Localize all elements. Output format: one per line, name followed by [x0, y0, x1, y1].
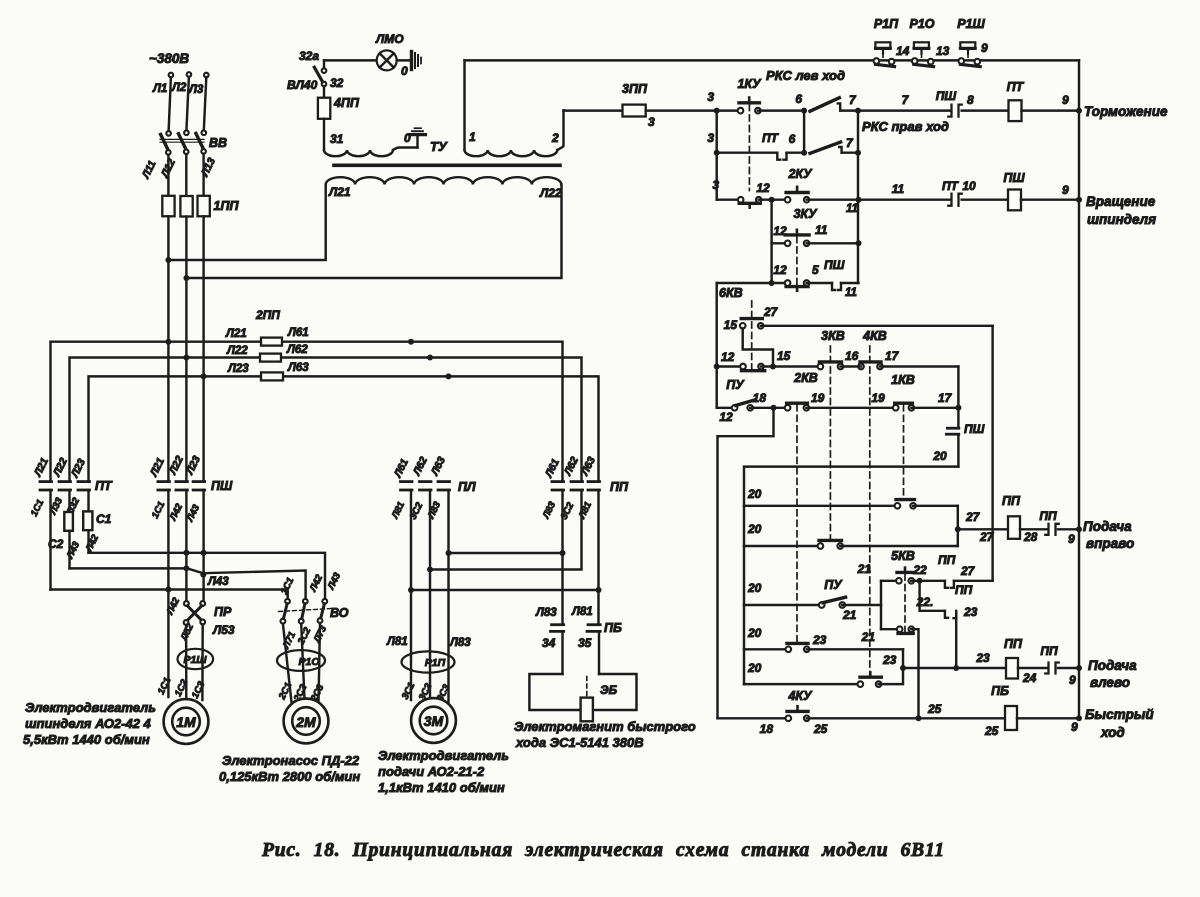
auxiliary self-hold contact ПШ (11)	[807, 282, 832, 284]
svg-text:22.: 22.	[916, 595, 934, 609]
svg-text:ЛМО: ЛМО	[375, 32, 404, 46]
motor 1М (spindle)	[164, 699, 209, 744]
svg-text:ВО: ВО	[330, 606, 349, 620]
svg-text:Быстрый: Быстрый	[1085, 707, 1154, 722]
wire 21 to 5КВ contacts	[842, 604, 881, 606]
corner into feed-left row	[902, 649, 904, 668]
svg-text:Р1Ш: Р1Ш	[183, 654, 207, 666]
auxiliary contact ПП (24) feed left	[1018, 667, 1047, 669]
node 3 on braking row	[714, 108, 720, 114]
svg-text:23: 23	[882, 653, 897, 667]
branch 3 to РКС прав ход	[715, 111, 717, 200]
svg-text:4КУ: 4КУ	[787, 689, 813, 703]
svg-text:23: 23	[963, 605, 978, 619]
svg-text:11: 11	[845, 287, 857, 299]
wire 27 to coil ПП (feed right)	[958, 528, 1008, 530]
wire to ВО pole 1	[51, 590, 288, 600]
svg-text:ПШ: ПШ	[211, 479, 233, 493]
contactor coil ПТ (braking)	[962, 109, 1009, 111]
svg-text:Рис. 18. Принципиальная электр: Рис. 18. Принципиальная электрическая сх…	[261, 840, 945, 861]
wire ПБ coil to bus end	[1017, 717, 1079, 719]
svg-text:0,125кВт 2800 об/мин: 0,125кВт 2800 об/мин	[219, 769, 360, 784]
svg-text:9: 9	[1069, 673, 1076, 687]
svg-text:3М: 3М	[424, 713, 444, 729]
svg-text:Р1П: Р1П	[874, 17, 899, 31]
svg-text:19: 19	[811, 391, 825, 405]
svg-text:Л43: Л43	[207, 576, 229, 588]
svg-text:25: 25	[813, 722, 828, 736]
electromagnet ЭБ coil	[586, 677, 588, 696]
svg-text:2КУ: 2КУ	[787, 167, 813, 181]
wire 3ПП to node 3	[646, 109, 741, 111]
svg-text:8: 8	[967, 93, 974, 107]
svg-text:12: 12	[773, 263, 787, 277]
svg-text:Л2: Л2	[171, 82, 187, 94]
wire ПТ coil to bus node 9	[1022, 109, 1080, 111]
svg-text:ПБ: ПБ	[604, 621, 622, 635]
svg-text:21: 21	[861, 630, 876, 644]
svg-text:ВВ: ВВ	[209, 136, 227, 150]
phase column Л22 below fuse	[185, 217, 187, 482]
svg-text:21: 21	[842, 608, 857, 622]
svg-text:16: 16	[845, 349, 859, 363]
svg-text:27: 27	[960, 564, 976, 578]
distribution wire Л22 / Л62	[70, 358, 582, 482]
svg-text:Л62: Л62	[286, 344, 308, 356]
svg-text:Л1: Л1	[152, 83, 167, 95]
svg-text:32а: 32а	[299, 49, 319, 63]
wires ВО to motor 2М	[283, 624, 292, 702]
wire to transformer primary terminal Л22	[186, 185, 561, 279]
svg-text:27: 27	[763, 305, 779, 319]
svg-text:ход: ход	[1100, 725, 1125, 740]
svg-text:15: 15	[724, 318, 738, 332]
svg-text:подачи АО2-21-2: подачи АО2-21-2	[378, 764, 485, 779]
svg-text:Р1О: Р1О	[298, 656, 319, 668]
vertical net 12 (left button chain)	[770, 200, 772, 283]
svg-text:35: 35	[578, 636, 592, 650]
svg-text:ПЛ: ПЛ	[458, 480, 476, 494]
auxiliary contact ПП (28) feed right	[1020, 528, 1047, 530]
svg-text:шпинделя АО2-42 4: шпинделя АО2-42 4	[25, 716, 152, 731]
svg-text:ЭБ: ЭБ	[600, 683, 618, 697]
svg-text:Л21: Л21	[328, 185, 351, 199]
svg-text:12: 12	[721, 350, 735, 364]
crossover wire 3С2	[430, 490, 582, 570]
svg-text:18: 18	[760, 722, 774, 736]
wire fuse 4ПП to winding 31	[323, 119, 325, 150]
svg-text:ТУ: ТУ	[430, 139, 448, 154]
svg-text:27: 27	[965, 510, 981, 524]
svg-text:23: 23	[975, 651, 990, 665]
svg-text:2КВ: 2КВ	[793, 371, 818, 385]
svg-text:Электродвигатель: Электродвигатель	[378, 748, 509, 763]
wire 17 to ПШ contact	[911, 407, 958, 409]
ground at winding 0	[416, 135, 418, 147]
svg-text:20: 20	[747, 581, 762, 595]
junction 27 right of rows 20	[957, 506, 959, 546]
svg-text:25: 25	[927, 702, 942, 716]
fuse 3ПП	[564, 109, 623, 111]
motor 3М (feed)	[411, 698, 456, 743]
svg-text:2М: 2М	[295, 714, 316, 730]
svg-text:ПШ: ПШ	[964, 422, 985, 436]
node 22 after 5КВ	[917, 578, 923, 584]
svg-text:34: 34	[542, 636, 556, 650]
fuse 2ПП pole 3	[261, 372, 283, 380]
svg-text:28: 28	[1023, 530, 1038, 544]
svg-text:ПШ: ПШ	[936, 89, 957, 103]
svg-text:1КУ: 1КУ	[737, 77, 762, 91]
svg-text:2ПП: 2ПП	[255, 308, 280, 322]
svg-text:ПП: ПП	[1002, 494, 1021, 508]
svg-text:0: 0	[401, 64, 408, 78]
svg-text:Р1О: Р1О	[909, 17, 934, 31]
wires from terminals to breaker ВВ	[169, 77, 171, 131]
wire 25 from 5КВ lower to 4КУ row	[911, 629, 918, 718]
columns ПЛ down to motor 3М	[410, 490, 412, 700]
thermal relay Р1О	[277, 650, 325, 671]
svg-text:20: 20	[932, 449, 947, 463]
svg-text:31: 31	[330, 132, 344, 146]
svg-text:Л83: Л83	[449, 637, 471, 649]
distribution wire Л23 / Л63	[89, 376, 599, 481]
svg-text:1КВ: 1КВ	[891, 373, 915, 387]
wire 1КУ to РКС лев ход	[758, 109, 804, 111]
svg-text:20: 20	[747, 522, 762, 536]
svg-text:3КВ: 3КВ	[821, 329, 845, 343]
svg-text:РКС прав ход: РКС прав ход	[862, 119, 949, 134]
wire to transformer primary terminal Л21	[168, 185, 325, 261]
svg-text:21: 21	[857, 562, 872, 576]
svg-text:ПУ: ПУ	[824, 578, 843, 592]
svg-text:3ПП: 3ПП	[622, 82, 648, 96]
wire 27 from 6КВ to interlock	[761, 325, 993, 327]
svg-text:Л53: Л53	[212, 623, 235, 637]
svg-text:ПТ: ПТ	[762, 131, 780, 145]
left vertical net 12 down to ПУ row	[715, 283, 717, 408]
wire up to feed-left row	[879, 668, 903, 684]
svg-text:1,1кВт 1410 об/мин: 1,1кВт 1410 об/мин	[378, 780, 505, 795]
contactor coil ПШ (spindle)	[962, 198, 1008, 200]
wire to ВО pole 2	[70, 567, 188, 569]
svg-text:17: 17	[938, 391, 953, 405]
svg-text:11: 11	[846, 203, 858, 215]
limit switch 5КВ lower contact (21-25)	[898, 632, 913, 635]
svg-text:Подача: Подача	[1083, 519, 1132, 534]
top bus wire from winding 1 to right bus	[465, 59, 1080, 61]
svg-text:Подача: Подача	[1088, 658, 1137, 673]
svg-text:9: 9	[1062, 93, 1069, 107]
wire 17 to corner	[880, 365, 958, 367]
svg-text:вправо: вправо	[1086, 536, 1134, 551]
wires 34-35 into electromagnet box	[561, 631, 563, 674]
svg-text:1ПП: 1ПП	[214, 199, 240, 213]
svg-text:С1: С1	[96, 512, 112, 526]
svg-text:20: 20	[747, 661, 762, 675]
svg-text:Электромагнит быстрого: Электромагнит быстрого	[514, 719, 696, 734]
phase wires Л11 Л12 Л13 to fuses	[167, 155, 169, 196]
svg-text:3: 3	[712, 178, 719, 192]
motor 2М (pump)	[284, 699, 329, 744]
svg-text:ПТ: ПТ	[1007, 80, 1025, 94]
svg-text:Л81: Л81	[386, 636, 408, 648]
svg-text:ПТ: ПТ	[942, 179, 960, 193]
spindle row corner from node 3	[717, 198, 741, 200]
svg-text:Л22: Л22	[539, 186, 562, 200]
svg-text:5КВ: 5КВ	[891, 549, 915, 563]
svg-text:3КУ: 3КУ	[793, 207, 818, 221]
svg-text:1М: 1М	[176, 714, 196, 730]
svg-text:Л63: Л63	[287, 362, 309, 374]
jog net 12 down to left vertical	[717, 282, 772, 284]
fuse 2ПП pole 2	[260, 354, 281, 362]
svg-text:Торможение: Торможение	[1084, 104, 1168, 119]
wire ПШ coil to bus	[1021, 198, 1079, 200]
wire 3КУ to vertical 11	[807, 242, 859, 244]
wire winding-2 to fuse 3ПП	[557, 110, 563, 150]
svg-text:19: 19	[871, 391, 885, 405]
svg-text:3: 3	[707, 131, 714, 145]
svg-text:шпинделя: шпинделя	[1087, 212, 1156, 227]
svg-text:ПР: ПР	[214, 605, 232, 619]
svg-text:ПБ: ПБ	[991, 684, 1009, 698]
right vertical bus wire (net 9)	[1078, 60, 1080, 718]
svg-text:ВЛ40: ВЛ40	[287, 78, 318, 92]
svg-text:11: 11	[892, 182, 905, 196]
svg-text:32: 32	[330, 76, 344, 90]
svg-text:11: 11	[815, 223, 828, 237]
svg-text:9: 9	[1068, 532, 1075, 546]
electromagnet ЭБ enclosure	[529, 674, 636, 710]
wire РКС прав to braking row / net 11 vertical	[857, 111, 859, 283]
svg-text:6: 6	[795, 92, 802, 106]
svg-text:25: 25	[984, 724, 999, 738]
svg-text:3: 3	[707, 90, 714, 104]
svg-text:10: 10	[962, 179, 976, 193]
svg-text:Р1Ш: Р1Ш	[957, 17, 985, 31]
svg-text:5: 5	[812, 263, 819, 277]
svg-text:9: 9	[981, 41, 988, 55]
svg-text:6: 6	[789, 132, 796, 146]
svg-text:3: 3	[648, 115, 655, 129]
button 1КУ second contact (3-12)	[739, 202, 760, 205]
svg-text:2: 2	[551, 131, 559, 145]
crossover wire Л81	[597, 490, 599, 625]
svg-text:ПП: ПП	[938, 553, 956, 567]
capacitor С2	[83, 511, 92, 530]
svg-text:ПШ: ПШ	[1003, 171, 1025, 185]
svg-text:Л83: Л83	[535, 607, 557, 619]
transformer ТУ core	[334, 164, 560, 168]
ground (chassis) at lamp	[410, 52, 413, 70]
svg-text:4КВ: 4КВ	[862, 329, 887, 343]
button ПШ (5) with self-hold	[772, 282, 788, 284]
wire to ВО pole 3	[89, 553, 326, 599]
svg-text:влево: влево	[1090, 675, 1130, 690]
thermal relay Р1Ш	[178, 649, 214, 669]
breaker ВВ (3-pole knife switch)	[166, 131, 171, 136]
motor feed columns to ПР	[185, 490, 187, 601]
feed-left row wire 23	[900, 665, 906, 671]
svg-text:17: 17	[885, 349, 900, 363]
svg-text:12: 12	[719, 410, 733, 424]
svg-text:С2: С2	[48, 537, 64, 551]
fuse 4ПП	[318, 98, 330, 119]
svg-text:14: 14	[896, 44, 910, 58]
svg-text:20: 20	[747, 487, 762, 501]
svg-text:ПП: ПП	[610, 480, 629, 494]
svg-text:Электродвигатель: Электродвигатель	[25, 700, 156, 715]
wire ПТ to capacitors	[49, 490, 51, 590]
motor feed column 1С1	[167, 490, 169, 697]
row 12 with 6КВ lower contact	[714, 364, 720, 370]
svg-text:Л81: Л81	[571, 606, 593, 618]
svg-text:6КВ: 6КВ	[719, 286, 743, 300]
svg-text:12: 12	[756, 181, 770, 195]
svg-text:ПУ: ПУ	[726, 378, 745, 392]
wire 25 to coil ПБ	[807, 717, 1005, 719]
svg-text:Вращение: Вращение	[1086, 194, 1156, 209]
crossover wire Л83	[561, 490, 563, 625]
svg-text:27: 27	[979, 530, 995, 544]
net 20 wire to left	[744, 467, 958, 684]
svg-text:9: 9	[1062, 183, 1069, 197]
svg-text:ПТ: ПТ	[95, 479, 113, 493]
svg-text:Л21: Л21	[225, 328, 247, 340]
svg-text:ПП: ПП	[955, 583, 973, 597]
svg-text:18: 18	[753, 391, 767, 405]
svg-text:Л22: Л22	[226, 345, 248, 357]
svg-text:Л23: Л23	[227, 363, 249, 375]
svg-text:Р1П: Р1П	[425, 657, 446, 669]
svg-text:23: 23	[812, 633, 827, 647]
capacitor С1	[64, 512, 73, 531]
fuse 1ПП (three cartridges)	[162, 196, 174, 217]
svg-text:ПП: ПП	[1040, 644, 1058, 658]
switch ПУ upper (12-18)	[717, 407, 735, 409]
svg-text:9: 9	[1071, 720, 1078, 734]
svg-text:4ПП: 4ПП	[333, 96, 360, 110]
svg-text:Л3: Л3	[188, 84, 204, 96]
net 18 vertical to 4КУ row	[718, 408, 774, 719]
svg-text:5,5кВт 1440 об/мин: 5,5кВт 1440 об/мин	[23, 732, 150, 747]
node 12 after 1КУ	[769, 197, 775, 203]
svg-text:~380В: ~380В	[149, 51, 189, 66]
thermal relay Р1П	[402, 651, 455, 672]
svg-text:24: 24	[1022, 671, 1037, 685]
svg-text:Л61: Л61	[287, 327, 309, 339]
svg-text:РКС лев ход: РКС лев ход	[766, 68, 845, 83]
svg-text:20: 20	[747, 626, 762, 640]
wire winding-1 riser to top bus	[463, 60, 465, 150]
svg-text:1: 1	[469, 130, 476, 144]
svg-text:13: 13	[936, 44, 950, 58]
distribution wire Л21 / Л61	[51, 342, 563, 482]
jog 15 between 6КВ contacts	[743, 328, 773, 366]
svg-text:ПП: ПП	[1004, 637, 1023, 651]
wire 19	[806, 407, 895, 409]
svg-text:22: 22	[912, 563, 927, 577]
svg-text:ПШ: ПШ	[824, 258, 845, 272]
phase column Л21 below fuse	[167, 216, 169, 481]
fuse 2ПП pole 1	[261, 338, 282, 346]
svg-text:12: 12	[773, 224, 787, 238]
wire 2КУ to ПТ-10 contact	[807, 198, 950, 200]
svg-text:ПП: ПП	[1039, 509, 1057, 523]
svg-text:15: 15	[777, 349, 791, 363]
svg-text:хода ЭС1-5141 380В: хода ЭС1-5141 380В	[515, 735, 644, 750]
wire 7 to contact ПШ-8	[840, 109, 950, 111]
svg-text:Электронасос ПД-22: Электронасос ПД-22	[222, 753, 360, 768]
phase column Л23 below fuse	[202, 216, 204, 481]
vertical net 27	[991, 326, 993, 581]
